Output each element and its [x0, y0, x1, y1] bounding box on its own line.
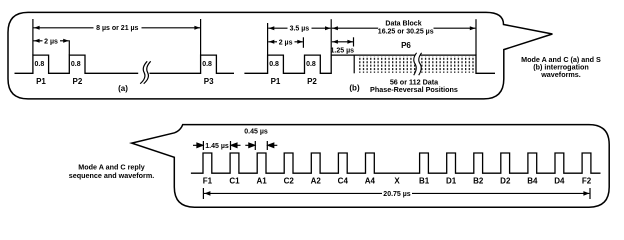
- (a) baseline break squiggle: [140, 61, 151, 83]
- reply 1.45us dimension right bar: [230, 141, 232, 150]
- (b) 1.25us dimension bar: [353, 37, 355, 46]
- svg-text:2 µs: 2 µs: [279, 40, 293, 47]
- svg-text:P2: P2: [73, 77, 83, 86]
- (a) 2us left arrowhead: [34, 39, 40, 43]
- svg-text:X: X: [394, 177, 400, 186]
- svg-text:16.25 or 30.25 µs: 16.25 or 30.25 µs: [378, 28, 434, 35]
- (b) dimension bar / P6 leading edge extension: [330, 19, 332, 55]
- (b) 2us dimension bar: [302, 37, 304, 48]
- svg-text:0.8: 0.8: [269, 61, 279, 68]
- (b) 2us label: [277, 38, 295, 46]
- (b) data block right arrowhead: [470, 26, 476, 30]
- svg-text:D2: D2: [500, 177, 511, 186]
- svg-text:waveforms.: waveforms.: [540, 70, 581, 79]
- (b) dimension bar / P6 trailing edge extension: [475, 19, 477, 55]
- reply 1.45us left arrow: [193, 143, 203, 148]
- svg-text:C2: C2: [284, 177, 295, 186]
- svg-text:D1: D1: [446, 177, 457, 186]
- svg-text:0.8: 0.8: [202, 61, 212, 68]
- svg-text:2 µs: 2 µs: [44, 38, 58, 45]
- svg-text:Phase-Reversal Positions: Phase-Reversal Positions: [370, 85, 458, 94]
- reply 20.75us dimension right bar: [589, 188, 591, 199]
- svg-text:8 µs or 21 µs: 8 µs or 21 µs: [96, 25, 138, 32]
- (b) 1.25us right arrowhead: [347, 40, 353, 44]
- svg-text:(b): (b): [349, 84, 360, 93]
- svg-text:1.25 µs: 1.25 µs: [331, 48, 355, 55]
- (a) 2us dimension bar at P2 leading edge: [68, 40, 70, 55]
- svg-text:A1: A1: [256, 177, 267, 186]
- reply 20.75us dimension line: [204, 192, 589, 194]
- svg-text:F1: F1: [203, 177, 213, 186]
- (a) 2us label: [43, 37, 61, 45]
- (b) data block left arrowhead: [332, 26, 338, 30]
- svg-text:Data Block: Data Block: [385, 20, 421, 27]
- svg-text:B2: B2: [473, 177, 484, 186]
- svg-text:F2: F2: [582, 177, 592, 186]
- svg-text:P1: P1: [271, 77, 281, 86]
- reply 1.45us right arrow: [231, 143, 241, 148]
- (a) dimension bar at P1 leading edge: [32, 19, 34, 55]
- reply 0.45us dimension left bar: [254, 141, 256, 150]
- top callout bubble outline: [8, 12, 552, 99]
- (b) 2us right arrowhead: [297, 40, 303, 44]
- (a) 8us label: [94, 24, 142, 32]
- svg-text:P2: P2: [307, 77, 317, 86]
- reply 20.75us dimension left bar: [202, 188, 204, 199]
- svg-text:0.8: 0.8: [71, 61, 81, 68]
- svg-text:0.8: 0.8: [35, 61, 45, 68]
- svg-text:0.45 µs: 0.45 µs: [244, 129, 268, 136]
- reply 20.75us right arrowhead: [583, 191, 589, 196]
- svg-text:(a): (a): [118, 84, 128, 93]
- (a) dimension bar at P3 leading edge: [200, 19, 202, 55]
- (a) waveform baseline+pulses P1 P2: [15, 55, 139, 73]
- reply 20.75us label: [382, 189, 412, 198]
- (b) 1.25us dimension line: [332, 41, 353, 43]
- (a) 8us dimension line: [34, 27, 201, 29]
- (a) 8us left arrowhead: [34, 26, 40, 30]
- (b) dimension bar at P1 leading edge: [267, 23, 269, 55]
- reply 20.75us left arrowhead: [204, 191, 210, 196]
- (a) 8us right arrowhead: [194, 26, 200, 30]
- svg-text:0.8: 0.8: [306, 61, 316, 68]
- svg-text:B4: B4: [527, 177, 538, 186]
- (b) P6 internal divider at 1.25us: [353, 55, 355, 73]
- svg-text:P3: P3: [204, 77, 214, 86]
- svg-text:P1: P1: [36, 77, 46, 86]
- reply 1.45us dimension left bar: [202, 141, 204, 150]
- svg-text:sequence and waveform.: sequence and waveform.: [69, 171, 154, 180]
- svg-text:P6: P6: [401, 41, 411, 50]
- (b) 3.5us right arrowhead: [325, 26, 331, 30]
- svg-text:A2: A2: [311, 177, 322, 186]
- (a) 2us dimension line: [34, 40, 69, 42]
- svg-text:20.75 µs: 20.75 µs: [383, 191, 410, 198]
- svg-text:C1: C1: [229, 177, 240, 186]
- (b) waveform baseline + pulses P1 P2 P6: [244, 55, 495, 73]
- (b) P6 data block dotted phase positions: [357, 56, 475, 73]
- (b) 3.5us label: [288, 24, 312, 32]
- (b) 1.25us left arrowhead: [332, 40, 338, 44]
- reply waveform pulse train F1..F2: [191, 153, 601, 173]
- reply 0.45us left arrow: [245, 143, 255, 148]
- svg-text:B1: B1: [419, 177, 430, 186]
- reply 0.45us right arrow: [268, 143, 278, 148]
- reply 0.45us dimension right bar: [266, 141, 268, 150]
- (a) 2us right arrowhead: [63, 39, 69, 43]
- (b) P6 break squiggle lines: [414, 53, 422, 75]
- bottom callout bubble outline: [132, 125, 610, 208]
- svg-text:3.5 µs: 3.5 µs: [290, 25, 310, 32]
- (b) data block dimension line: [332, 27, 476, 29]
- svg-text:C4: C4: [338, 177, 349, 186]
- svg-text:A4: A4: [365, 177, 376, 186]
- (b) P6 break white gap: [414, 53, 422, 76]
- (a) baseline right part + pulse P3: [150, 55, 235, 73]
- (b) 3.5us dimension line: [268, 27, 330, 29]
- svg-text:D4: D4: [554, 177, 565, 186]
- svg-text:1.45 µs: 1.45 µs: [205, 143, 229, 150]
- (b) 2us dimension line: [268, 41, 303, 43]
- (b) 3.5us left arrowhead: [269, 26, 275, 30]
- (b) 2us left arrowhead: [269, 40, 275, 44]
